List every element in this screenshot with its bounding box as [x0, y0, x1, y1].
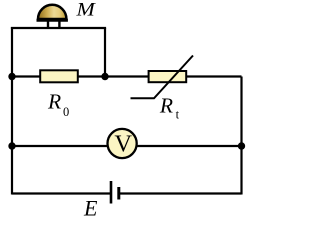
node: junction voltmeter row / right rail [238, 142, 245, 149]
voltmeter V [108, 129, 137, 158]
node: junction right of R0 (bell branch tap) [101, 73, 108, 80]
battery E: long plate (positive) [110, 181, 113, 204]
wire: bottom row right of battery [120, 192, 242, 194]
svg-text:t: t [176, 107, 180, 121]
wire: bottom row left of battery [12, 192, 110, 194]
svg-text:M: M [75, 0, 96, 21]
node: junction voltmeter row / left rail [8, 142, 15, 149]
svg-text:0: 0 [63, 105, 69, 119]
wire: bell-branch top horizontal [11, 27, 106, 29]
wire: voltmeter row horizontal [12, 145, 242, 147]
wire: bell right leg [58, 20, 60, 28]
resistor R0 [40, 70, 78, 82]
svg-text:R: R [47, 90, 61, 114]
thermistor Rt diagonal stroke [131, 56, 194, 99]
svg-text:E: E [83, 195, 98, 218]
electric bell M (gold dome) [37, 5, 68, 20]
wire: right vertical rail [240, 77, 242, 195]
wire: bell left leg [47, 20, 49, 28]
wire: main top row (through R0 and Rt) [12, 75, 242, 77]
svg-text:R: R [159, 93, 173, 117]
node: junction left of R0 (top row / left rail) [8, 73, 15, 80]
thermistor Rt [149, 71, 187, 82]
battery E: short plate (negative) [117, 187, 120, 200]
wire: left vertical rail [11, 27, 13, 195]
wire: bell-branch right vertical [104, 28, 106, 77]
svg-text:V: V [114, 130, 132, 157]
